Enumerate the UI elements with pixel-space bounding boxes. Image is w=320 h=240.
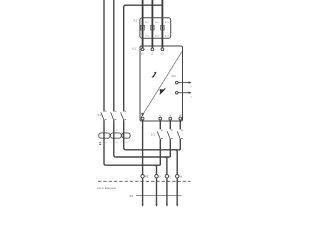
fuse F3 element — [161, 25, 164, 30]
output circle 1 — [176, 81, 179, 84]
wire PE to motor — [142, 178, 144, 205]
svg-text:L2: L2 — [151, 52, 154, 56]
svg-text:2: 2 — [190, 87, 192, 89]
svg-text:5L3: 5L3 — [165, 22, 169, 24]
wire bypass vertical 2 — [113, 0, 115, 111]
wire L3 phase vertical — [161, 0, 163, 48]
ramp icon — [152, 74, 155, 77]
wire T1 drop — [159, 139, 161, 165]
motor terminal V — [165, 175, 168, 178]
terminal L2 circle — [151, 48, 154, 51]
svg-text:4: 4 — [116, 142, 118, 144]
output wire 2 with arrow — [178, 92, 190, 94]
svg-text:V: V — [169, 174, 171, 178]
svg-text:1: 1 — [106, 130, 108, 132]
cable W1 line — [136, 195, 182, 197]
cabinet boundary dashed line — [98, 180, 191, 182]
motor terminal U — [155, 175, 158, 178]
wire T3 drop — [179, 139, 181, 150]
wire run C bypass1 to U — [104, 138, 160, 165]
wire V to motor — [166, 178, 168, 205]
wire U feeder — [155, 165, 157, 174]
output wire 1 with arrow — [178, 82, 190, 84]
terminal PE circle — [141, 117, 144, 120]
contact Q3 pole 3 — [121, 112, 124, 120]
terminal U circle — [159, 117, 162, 120]
motor terminal PE — [141, 175, 144, 178]
thyristor icon — [160, 89, 165, 94]
wire L1 phase vertical — [142, 0, 144, 48]
pin label PE — [141, 113, 144, 115]
soft starter diagonal — [141, 52, 182, 118]
wire run A bypass3 to W — [124, 138, 181, 149]
svg-text:W: W — [180, 174, 183, 178]
wire bypass vertical 1 — [103, 0, 105, 111]
contact Q3 pole 1 — [101, 112, 104, 120]
wire W feeder — [175, 150, 177, 175]
svg-text:L1: L1 — [141, 52, 144, 56]
svg-text:6: 6 — [126, 142, 128, 144]
svg-text:2T1: 2T1 — [145, 35, 150, 37]
svg-text:5.1: 5.1 — [151, 132, 156, 136]
wire V feeder — [165, 157, 167, 175]
svg-text:3: 3 — [116, 130, 118, 132]
wire T2 drop — [169, 139, 171, 157]
wire L2 phase vertical — [151, 0, 153, 48]
wire run B bypass2 to V — [114, 138, 171, 157]
contact Q5 pole 3 — [179, 120, 181, 129]
svg-text:4: 4 — [190, 97, 192, 99]
terminal W circle — [179, 117, 182, 120]
svg-text:3L2: 3L2 — [155, 22, 159, 24]
svg-text:4.1: 4.1 — [133, 19, 138, 23]
svg-text:X10: X10 — [171, 75, 176, 78]
wire U to motor — [156, 178, 158, 205]
contact Q5 pole 2 — [169, 120, 171, 129]
svg-text:4T2: 4T2 — [155, 35, 160, 37]
svg-text:5: 5 — [126, 130, 128, 132]
wire through strip cells — [104, 133, 124, 139]
fuse block outline — [140, 18, 171, 39]
svg-text:6T3: 6T3 — [165, 35, 170, 37]
svg-text:Last b. Eigenverw.: Last b. Eigenverw. — [97, 187, 117, 190]
terminal L3 circle — [161, 48, 164, 51]
wire PE feeder — [142, 120, 144, 175]
terminal strip X1 — [99, 133, 110, 138]
svg-text:6.1: 6.1 — [132, 47, 137, 51]
wire W to motor — [176, 178, 178, 205]
fuse F1 element — [141, 25, 144, 30]
strip label — [99, 143, 101, 145]
motor terminal W — [176, 175, 179, 178]
wire top branch from L3 to bypass — [124, 5, 163, 111]
terminal V circle — [169, 117, 172, 120]
contact Q3 pole 2 — [111, 112, 114, 120]
terminal L1 circle — [141, 48, 144, 51]
fuse F2 element — [151, 25, 154, 30]
svg-text:PE: PE — [145, 174, 149, 178]
svg-text:U: U — [159, 174, 161, 178]
svg-text:1L1: 1L1 — [145, 22, 149, 24]
svg-text:W1: W1 — [129, 194, 133, 198]
svg-text:2: 2 — [106, 142, 108, 144]
contact Q5 pole 1 — [159, 120, 161, 129]
svg-text:L3: L3 — [161, 52, 164, 56]
output circle 2 — [176, 91, 179, 94]
soft starter outline — [140, 46, 183, 121]
